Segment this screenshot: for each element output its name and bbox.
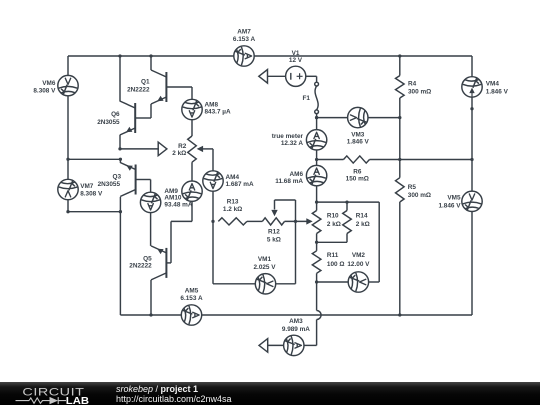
- svg-text:300 mΩ: 300 mΩ: [408, 192, 431, 199]
- svg-text:R4: R4: [408, 81, 417, 88]
- svg-text:VM5: VM5: [447, 194, 461, 201]
- svg-text:VM4: VM4: [486, 80, 500, 87]
- svg-text:R14: R14: [356, 212, 368, 219]
- svg-text:R10: R10: [327, 212, 339, 219]
- svg-text:R12: R12: [268, 229, 280, 236]
- svg-text:AM8: AM8: [205, 101, 219, 108]
- svg-text:R5: R5: [408, 184, 417, 191]
- svg-text:2 kΩ: 2 kΩ: [327, 221, 341, 228]
- svg-text:AM5: AM5: [185, 288, 199, 295]
- svg-text:AM3: AM3: [289, 318, 303, 325]
- svg-text:Q6: Q6: [111, 111, 120, 118]
- svg-text:6.153 A: 6.153 A: [180, 295, 203, 302]
- svg-text:2.025 V: 2.025 V: [253, 264, 276, 271]
- svg-text:Q3: Q3: [112, 174, 121, 181]
- svg-text:8.308 V: 8.308 V: [80, 190, 103, 197]
- svg-text:11.68 mA: 11.68 mA: [275, 178, 303, 185]
- svg-text:LAB: LAB: [66, 395, 90, 405]
- svg-text:VM7: VM7: [80, 183, 94, 190]
- svg-text:VM1: VM1: [258, 256, 272, 263]
- svg-text:2N3055: 2N3055: [98, 181, 121, 188]
- svg-text:true meter: true meter: [272, 133, 304, 140]
- svg-text:VM2: VM2: [352, 252, 366, 259]
- svg-text:2 kΩ: 2 kΩ: [356, 221, 370, 228]
- svg-text:6.153 A: 6.153 A: [233, 36, 256, 43]
- svg-text:1.846 V: 1.846 V: [438, 202, 461, 209]
- svg-text:12.00 V: 12.00 V: [347, 261, 370, 268]
- svg-text:AM4: AM4: [226, 174, 240, 181]
- svg-text:1.687 mA: 1.687 mA: [226, 181, 254, 188]
- svg-text:R2: R2: [178, 143, 187, 150]
- svg-text:Q5: Q5: [143, 255, 152, 262]
- svg-text:AM6: AM6: [290, 171, 304, 178]
- svg-text:2N3055: 2N3055: [97, 119, 120, 126]
- svg-text:2N2222: 2N2222: [129, 263, 152, 270]
- svg-text:VM3: VM3: [351, 131, 365, 138]
- svg-text:100 Ω: 100 Ω: [327, 261, 345, 268]
- svg-text:V1: V1: [292, 50, 300, 57]
- svg-text:1.2 kΩ: 1.2 kΩ: [223, 206, 242, 213]
- svg-text:150 mΩ: 150 mΩ: [346, 175, 369, 182]
- svg-text:VM6: VM6: [42, 80, 56, 87]
- svg-text:12 V: 12 V: [289, 57, 303, 64]
- svg-text:F1: F1: [303, 95, 311, 102]
- svg-text:AM7: AM7: [237, 29, 251, 36]
- svg-text:93.48 mA: 93.48 mA: [164, 201, 192, 208]
- svg-text:8.308 V: 8.308 V: [33, 88, 56, 95]
- svg-text:1.846 V: 1.846 V: [347, 138, 370, 145]
- svg-text:R11: R11: [327, 252, 339, 259]
- svg-text:2 kΩ: 2 kΩ: [172, 150, 186, 157]
- svg-text:Q1: Q1: [141, 78, 150, 85]
- svg-text:5 kΩ: 5 kΩ: [267, 236, 281, 243]
- svg-text:R6: R6: [353, 168, 362, 175]
- svg-text:12.32 A: 12.32 A: [281, 140, 304, 147]
- svg-text:R13: R13: [227, 198, 239, 205]
- svg-text:2N2222: 2N2222: [127, 86, 150, 93]
- svg-text:300 mΩ: 300 mΩ: [408, 88, 431, 95]
- svg-text:843.7 µA: 843.7 µA: [205, 108, 231, 115]
- svg-text:9.989 mA: 9.989 mA: [282, 326, 310, 333]
- svg-text:1.846 V: 1.846 V: [486, 88, 509, 95]
